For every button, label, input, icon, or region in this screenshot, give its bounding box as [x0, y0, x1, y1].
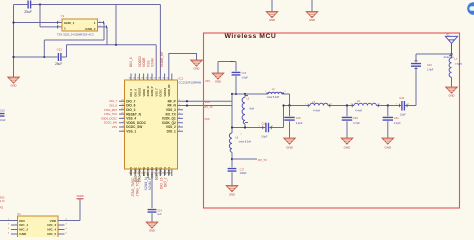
svg-text:1: 1 [259, 126, 260, 128]
svg-text:TSX-3225_24.000MF20X-AC3: TSX-3225_24.000MF20X-AC3 [57, 32, 94, 36]
wire: rail to crystal pin 2 [14, 22, 58, 24]
wire: RF_N to matching network [178, 105, 233, 107]
svg-text:3.6pF: 3.6pF [242, 77, 249, 80]
MCU left pins [119, 101, 125, 131]
svg-text:11: 11 [129, 172, 131, 174]
wire: DCDC pin down to C14 [151, 169, 153, 208]
junction X24M net [115, 44, 117, 46]
svg-text:C14: C14 [157, 209, 162, 212]
svg-text:C20: C20 [353, 116, 358, 120]
MCU internal right pin names [162, 99, 177, 133]
svg-text:VDDS_DCDC: VDDS_DCDC [101, 116, 117, 120]
wire: crystal pin3 to X24M net [106, 27, 108, 45]
ground (MCU top pin) [191, 60, 203, 66]
svg-text:C13: C13 [57, 48, 63, 52]
svg-text:32: 32 [133, 78, 135, 80]
ground (top 1) [266, 12, 278, 18]
svg-text:RX_TX: RX_TX [258, 158, 267, 162]
MCU top pins [131, 74, 172, 81]
svg-text:VSS: VSS [205, 101, 210, 104]
svg-text:4.7k: 4.7k [0, 200, 5, 203]
svg-text:VSS: VSS [205, 80, 210, 83]
svg-text:20: 20 [169, 172, 171, 174]
svg-text:17: 17 [158, 172, 160, 174]
junction RF_N [186, 104, 188, 106]
svg-text:2.2pF: 2.2pF [296, 121, 303, 125]
terminal tick marks and tiny pin digits [58, 21, 453, 129]
svg-text:1uF: 1uF [157, 213, 162, 216]
svg-text:1: 1 [265, 91, 266, 93]
svg-text:GND: GND [384, 146, 392, 150]
svg-text:X24M: X24M [151, 58, 155, 67]
svg-text:12: 12 [133, 172, 135, 174]
svg-text:GND: GND [229, 192, 235, 196]
svg-text:N/C_3: N/C_3 [47, 223, 56, 227]
svg-text:1: 1 [351, 104, 352, 106]
svg-text:35: 35 [145, 78, 147, 80]
svg-text:2: 2 [272, 126, 273, 128]
svg-text:1: 1 [94, 21, 96, 25]
svg-text:3: 3 [179, 108, 180, 110]
svg-text:3: 3 [122, 121, 123, 123]
svg-text:36: 36 [150, 78, 152, 80]
junction C20 tap [346, 104, 348, 106]
svg-text:2.4pF: 2.4pF [427, 69, 434, 72]
svg-text:VDDS3: VDDS3 [163, 87, 167, 96]
capacitor C23 [411, 64, 421, 67]
svg-text:31: 31 [129, 78, 131, 80]
svg-text:10uF: 10uF [0, 119, 6, 122]
balun top rail [232, 93, 268, 95]
junction crystal loop / C13 net [43, 56, 45, 58]
svg-text:GND: GND [449, 94, 455, 98]
svg-text:GND: GND [11, 84, 17, 88]
wire: RF_P to matching network [178, 100, 233, 102]
svg-text:15pF: 15pF [400, 113, 406, 116]
wire: riser joining balun outputs [283, 106, 285, 128]
svg-text:5: 5 [66, 232, 67, 234]
svg-text:1: 1 [247, 95, 248, 97]
svg-text:mbar 8.2nH: mbar 8.2nH [267, 96, 280, 99]
capacitor C12 (inline, 25uF) [28, 1, 31, 9]
junction balun top-left [231, 93, 233, 95]
svg-text:25uF: 25uF [24, 10, 32, 14]
svg-text:X24M_N: X24M_N [146, 86, 150, 96]
ground (C14) [146, 222, 158, 228]
svg-text:CC1310F128RHB: CC1310F128RHB [179, 81, 202, 85]
junction C16/balun top [235, 93, 237, 95]
svg-text:8: 8 [66, 219, 67, 221]
svg-text:6: 6 [179, 117, 180, 119]
svg-text:19: 19 [166, 172, 168, 174]
svg-text:DIO_2: DIO_2 [164, 177, 168, 187]
svg-text:21: 21 [121, 113, 123, 115]
svg-text:DIO_16: DIO_16 [142, 166, 146, 175]
MCU top red net labels (vertical) [129, 51, 164, 67]
svg-text:2: 2 [241, 134, 242, 136]
svg-text:37: 37 [154, 78, 156, 80]
capacitor C19 shunt [289, 106, 291, 117]
svg-text:DIO_7: DIO_7 [110, 99, 118, 103]
svg-text:4: 4 [8, 232, 9, 234]
K1 internal pin names [19, 219, 28, 236]
MCU internal left pin names [126, 99, 147, 133]
svg-text:Y1: Y1 [61, 14, 65, 18]
svg-text:N/C_4: N/C_4 [47, 228, 56, 232]
svg-text:18: 18 [162, 172, 164, 174]
svg-text:GND: GND [286, 146, 294, 150]
svg-text:1: 1 [122, 130, 123, 132]
svg-text:8: 8 [179, 125, 180, 127]
svg-text:GND: GND [149, 228, 155, 232]
svg-text:4: 4 [122, 117, 123, 119]
svg-text:38: 38 [158, 78, 160, 80]
svg-text:C21: C21 [394, 116, 399, 120]
svg-text:X24M_P: X24M_P [150, 86, 154, 96]
svg-text:1: 1 [179, 100, 180, 102]
svg-text:2: 2 [331, 104, 332, 106]
svg-text:VSS: VSS [205, 118, 210, 121]
balun left rail / RX chain [231, 94, 233, 133]
svg-text:23: 23 [121, 104, 123, 106]
junction L3 bottom [244, 126, 246, 128]
svg-text:VDDR_RF: VDDR_RF [167, 84, 171, 97]
svg-text:VSS_T: VSS_T [154, 88, 158, 97]
node junction at (40,4.5) [39, 3, 41, 5]
junction C19 tap [288, 104, 290, 106]
wire: drop from top net to crystal pin 1 [40, 5, 58, 27]
junction L3 top [244, 93, 246, 95]
MCU left red net labels [101, 99, 118, 129]
capacitor C17 [228, 169, 237, 172]
svg-text:JTAG_TCK: JTAG_TCK [104, 112, 117, 116]
svg-text:DIO_6: DIO_6 [110, 104, 118, 108]
svg-text:1: 1 [305, 104, 306, 106]
svg-text:Wireless MCU: Wireless MCU [225, 33, 277, 40]
MCU left pin numbers [121, 100, 123, 132]
svg-text:34: 34 [141, 78, 143, 80]
junction riser/RF rail [282, 104, 284, 106]
junction rail/pin2 net [12, 21, 14, 23]
svg-text:GND: GND [309, 18, 315, 22]
wire: pin1 to left edge [0, 220, 18, 222]
junction balun bottom-left [231, 126, 233, 128]
capacitor C21 shunt [387, 106, 389, 117]
svg-text:16: 16 [153, 172, 155, 174]
svg-text:7: 7 [179, 121, 180, 123]
capacitor C14 [148, 210, 157, 213]
svg-text:24: 24 [121, 100, 123, 102]
svg-text:7: 7 [66, 223, 67, 225]
svg-text:7.5nH: 7.5nH [455, 63, 462, 66]
svg-text:4.7pF: 4.7pF [353, 121, 360, 125]
svg-text:22: 22 [121, 108, 123, 110]
ground (C17) [226, 186, 238, 192]
svg-text:100pF: 100pF [240, 172, 248, 175]
svg-text:5: 5 [179, 113, 180, 115]
svg-text:33: 33 [137, 78, 139, 80]
junction rail/C13 net [12, 56, 14, 58]
svg-text:3.6pF: 3.6pF [261, 136, 268, 139]
wire: rail to C13 [14, 56, 58, 58]
svg-text:DCDC_SW: DCDC_SW [104, 121, 118, 125]
wire: riser to antenna with C23 [416, 54, 452, 106]
svg-text:GND: GND [19, 232, 27, 236]
wire: top ground stub 2 [311, 0, 313, 12]
svg-text:8nH: 8nH [250, 108, 255, 111]
svg-text:1: 1 [64, 27, 66, 31]
svg-text:JTAG_RST: JTAG_RST [104, 108, 117, 112]
svg-text:DIO_8: DIO_8 [129, 88, 133, 96]
svg-text:4.4nH: 4.4nH [355, 108, 362, 112]
svg-text:Antenna: Antenna [444, 55, 455, 59]
MCU right pin numbers [179, 100, 180, 132]
svg-text:2: 2 [408, 104, 409, 106]
svg-text:2: 2 [285, 91, 286, 93]
junction RX_TX tap [231, 158, 233, 160]
wire: left GND rail [13, 5, 15, 78]
svg-text:DIO_8: DIO_8 [129, 57, 133, 67]
svg-text:2: 2 [179, 104, 180, 106]
blue UI badge [467, 2, 474, 15]
svg-text:14: 14 [141, 172, 143, 174]
MCU bottom pins [131, 169, 172, 176]
svg-text:DCDC: DCDC [159, 89, 163, 97]
wire: MCU pin to GND via top [169, 54, 197, 81]
capacitor C16 shunt branch [218, 62, 236, 74]
svg-text:25uF: 25uF [55, 62, 62, 66]
svg-text:GND: GND [194, 66, 200, 70]
svg-text:1: 1 [396, 104, 397, 106]
svg-text:3: 3 [8, 228, 9, 230]
svg-text:C10: C10 [0, 110, 5, 113]
svg-text:VDDR_RF: VDDR_RF [160, 51, 164, 67]
wire: VDD pin to VDDR [58, 199, 80, 220]
junction antenna node [450, 53, 452, 55]
svg-text:N/C_5: N/C_5 [47, 232, 56, 236]
svg-text:1: 1 [8, 219, 9, 221]
power VDDR [77, 198, 84, 200]
junction RF_P [186, 100, 188, 102]
svg-text:VDDR: VDDR [142, 89, 146, 96]
capacitor C20 shunt [346, 106, 348, 117]
svg-text:6: 6 [66, 228, 67, 230]
svg-text:DIO_9: DIO_9 [133, 88, 137, 96]
svg-text:40: 40 [166, 78, 168, 80]
svg-text:C16: C16 [242, 72, 247, 75]
svg-text:GND: GND [215, 79, 221, 83]
svg-text:K1: K1 [18, 212, 22, 216]
ground (top 2) [306, 12, 318, 18]
svg-text:9: 9 [179, 130, 180, 132]
svg-text:2: 2 [8, 223, 9, 225]
junction C21 tap [387, 104, 389, 106]
svg-text:mbar 8.2nH: mbar 8.2nH [239, 141, 252, 144]
MCU bottom pin numbers [129, 172, 172, 174]
svg-text:VDDR: VDDR [76, 194, 83, 198]
svg-text:DIO_1: DIO_1 [167, 130, 176, 134]
svg-text:JTAG_TCKC: JTAG_TCKC [135, 177, 139, 197]
MCU top pin numbers [129, 78, 169, 80]
wire: crystal pin4 loop back [44, 23, 104, 58]
svg-text:2.1pF: 2.1pF [394, 121, 401, 125]
svg-text:13: 13 [137, 172, 139, 174]
svg-text:2: 2 [379, 104, 380, 106]
svg-text:N/C_1: N/C_1 [19, 223, 28, 227]
svg-text:C18: C18 [262, 123, 267, 126]
MCU bottom red/blue net labels (vertical) [131, 177, 167, 197]
MCU internal bottom pin names (vertical) [129, 166, 171, 182]
svg-text:C22: C22 [399, 97, 404, 100]
svg-text:15: 15 [145, 172, 147, 174]
svg-text:C23: C23 [427, 64, 432, 67]
ground (left rail) [8, 77, 20, 83]
svg-text:VSS_1: VSS_1 [126, 130, 136, 134]
wire: X24M horizontal net into MCU [67, 45, 157, 80]
svg-text:RX_TX: RX_TX [205, 106, 213, 109]
MCU internal top pin names (vertical) [129, 84, 171, 97]
svg-text:GND: GND [344, 146, 352, 150]
balun bottom rail with C18 [232, 127, 284, 129]
svg-text:N/C_2: N/C_2 [19, 228, 28, 232]
svg-text:39: 39 [162, 78, 164, 80]
svg-text:C17: C17 [240, 168, 245, 171]
wire: top horizontal net to MCU [14, 5, 161, 81]
svg-text:VDDS2: VDDS2 [138, 87, 142, 96]
svg-text:GND_2: GND_2 [85, 27, 96, 31]
svg-text:VSS: VSS [112, 125, 117, 129]
svg-text:4.4nH: 4.4nH [313, 108, 320, 112]
svg-text:2: 2 [122, 125, 123, 127]
MCU right pins [178, 110, 184, 132]
main RF rail [284, 105, 417, 107]
svg-text:GND: GND [269, 18, 275, 22]
svg-text:C19: C19 [296, 116, 301, 120]
svg-text:GND_1: GND_1 [64, 21, 75, 25]
wire: top ground stub 1 [271, 0, 273, 12]
